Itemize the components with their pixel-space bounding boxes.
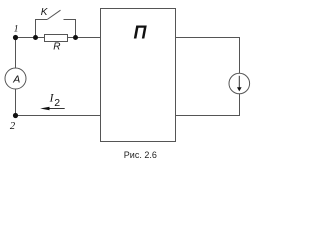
switch K xyxy=(36,10,76,37)
ammeter A xyxy=(5,68,26,89)
node 1 junction dot xyxy=(13,35,18,40)
current source J xyxy=(229,73,250,94)
svg-text:2: 2 xyxy=(10,121,16,132)
current arrow I2 xyxy=(40,107,64,111)
label I2 xyxy=(49,93,61,109)
wire: bottom conductor node 2 to network input xyxy=(16,115,101,117)
svg-text:K: K xyxy=(41,7,49,18)
svg-text:Рис. 2.6: Рис. 2.6 xyxy=(124,150,157,160)
wire: left vertical conductor node 1 to node 2 xyxy=(15,38,17,116)
resistor R xyxy=(45,35,68,42)
svg-text:2: 2 xyxy=(54,97,60,109)
wire: current source to network output bottom xyxy=(176,94,240,116)
junction dot: switch/resistor right xyxy=(73,35,78,40)
svg-text:A: A xyxy=(12,73,20,85)
two-port network box П xyxy=(101,9,176,142)
svg-text:П: П xyxy=(134,22,148,42)
svg-text:R: R xyxy=(53,42,60,53)
svg-text:1: 1 xyxy=(14,25,19,35)
wire: network output top to current source xyxy=(176,38,240,74)
node 2 junction dot xyxy=(13,113,18,118)
wire: top conductor from node 1 to network input xyxy=(16,37,101,39)
junction dot: switch/resistor left xyxy=(33,35,38,40)
